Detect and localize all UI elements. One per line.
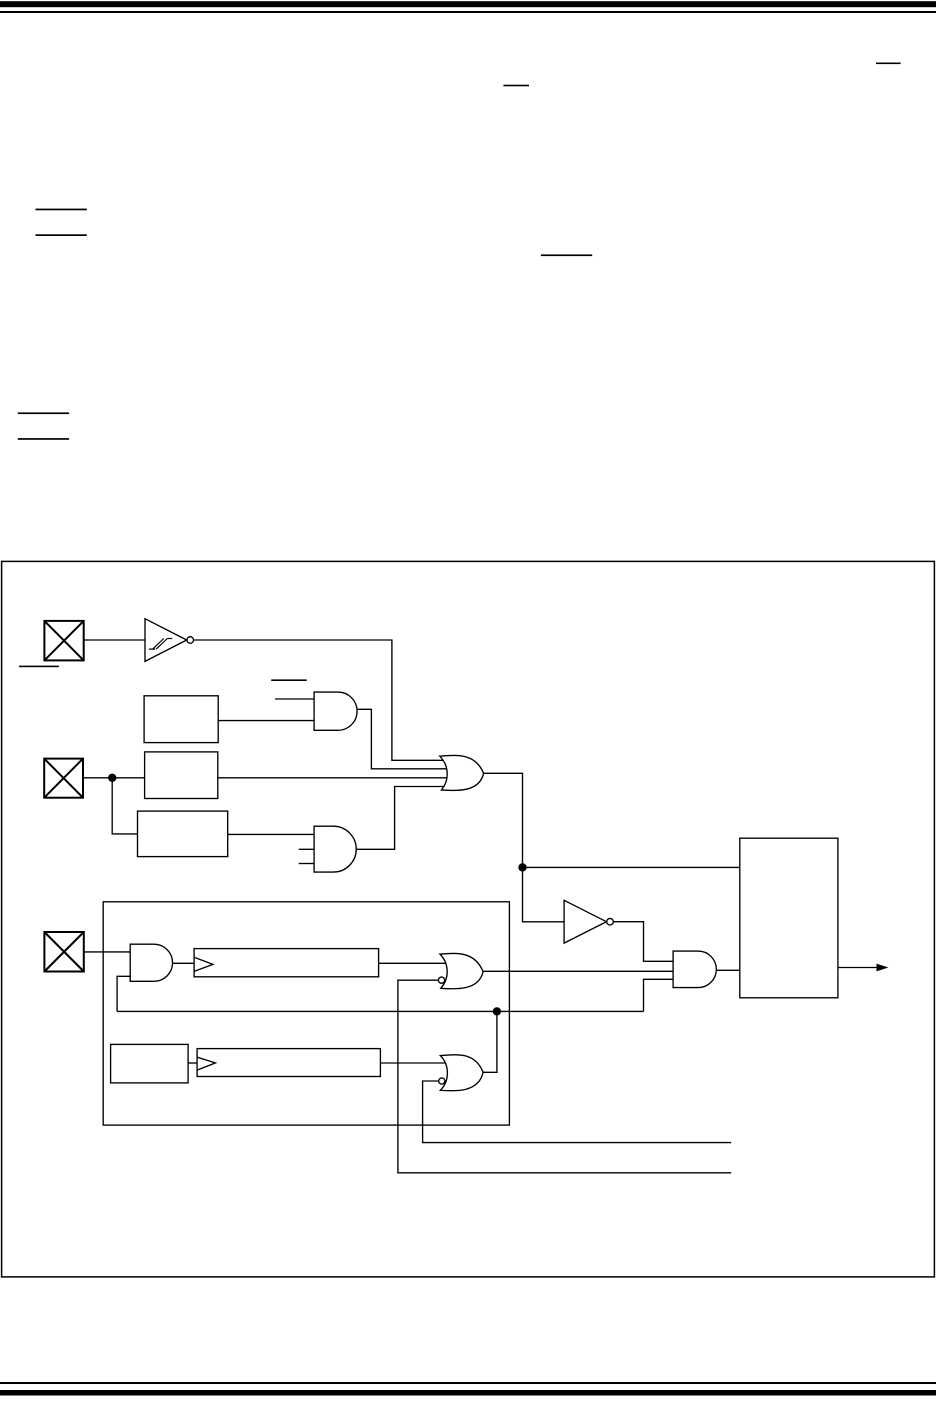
overbar over signal name (left list line 4): [18, 438, 69, 440]
pad1 (crossed bonding pad): [44, 621, 83, 661]
wire pad2 to block B2: [83, 777, 145, 779]
pad3 (crossed bonding pad): [44, 932, 83, 972]
D2 clock chevron: [197, 1057, 215, 1070]
wire delay D1 output to OR G5 input 1: [379, 962, 447, 964]
OR gate G5 with inverted input: [440, 953, 483, 988]
OR gate G3 (4-input): [440, 755, 484, 790]
wire AND G4 output to delay D1: [173, 962, 195, 964]
AND gate G6: [673, 951, 716, 988]
overbar over signal name (paragraph 2): [541, 254, 592, 256]
wire delay block B5 to delay D2: [188, 1062, 197, 1064]
footer thin rule: [0, 1382, 936, 1384]
wire pad3 to AND G4: [84, 951, 130, 953]
wire block B2 output to OR G3 input 3: [218, 777, 447, 779]
inner block boundary box: [103, 902, 509, 1125]
AND gate G1: [314, 692, 357, 730]
wire U1 output net to OR G3 input 1: [194, 640, 447, 760]
delay line D1: [194, 949, 379, 977]
figure frame: [2, 561, 935, 1277]
D1 clock chevron: [194, 957, 213, 971]
junction dot node N1: [518, 863, 526, 871]
pad2 (crossed bonding pad): [44, 759, 83, 798]
output arrowhead: [877, 964, 889, 972]
wire pad1 to schmitt U1: [84, 639, 145, 641]
block B1: [144, 696, 218, 743]
wire block B1 output to AND G1: [218, 720, 314, 722]
overbar over signal name (left list line 2): [36, 234, 87, 236]
wire block B3 output to AND G2: [228, 833, 314, 835]
output arrow wire: [838, 967, 878, 969]
block B5: [111, 1044, 189, 1083]
junction dot node N2: [493, 1007, 501, 1015]
wire OR G5 output to AND G6 input 2: [483, 970, 673, 972]
wire OR G7 inverted input to bottom stub 1: [423, 1081, 731, 1143]
wire node N2 down to OR G7 output net: [483, 1011, 497, 1072]
junction dot pad2 node: [108, 774, 116, 782]
block B2: [145, 752, 218, 799]
inverter U2: [564, 900, 606, 943]
wire feedback to AND G4 input 2: [117, 976, 130, 1011]
wire AND G6 output to block B4: [716, 969, 740, 971]
overbar over signal name (paragraph 1): [503, 85, 529, 87]
wire OR G3 output to node N1 and block B4: [484, 773, 740, 867]
wire AND G2 output to OR G3 input 4: [356, 787, 447, 850]
wire OR G5 inverted input to bottom stub 2: [398, 980, 731, 1173]
AND gate G4: [130, 944, 172, 981]
wire node N1 down to inverter U2: [523, 867, 565, 921]
wire feedback node N2 net: [117, 1010, 643, 1012]
wire inverter U2 output to AND G6 input 1: [614, 922, 674, 962]
OR gate G7 with inverted input: [440, 1055, 483, 1091]
wire AND G1 output to OR G3 input 2: [357, 709, 447, 769]
wire delay D2 output to OR G7 input 1: [380, 1062, 447, 1064]
overbar over signal name (top right): [876, 63, 901, 65]
underbar under pad1 label: [19, 666, 59, 668]
G7 input bubble: [439, 1078, 445, 1084]
output block B4: [740, 838, 838, 998]
wire AND G2 input stub a: [299, 848, 314, 850]
wire AND G2 input stub b: [299, 863, 314, 865]
overbar over AND G1 input label: [271, 679, 307, 681]
wire feedback to AND G6 input 3: [644, 979, 674, 1011]
U1 output bubble: [187, 637, 194, 644]
wire junction pad2 node down to block B3: [112, 778, 137, 834]
G5 input bubble: [438, 977, 444, 983]
overbar over signal name (left list line 3): [18, 412, 69, 414]
wire AND G1 input stub: [275, 698, 314, 700]
U1 hysteresis symbol: [149, 639, 172, 650]
footer thick rule: [0, 1390, 936, 1396]
block B3: [138, 811, 228, 857]
schmitt trigger inverter U1: [145, 619, 187, 662]
header thick rule: [0, 1, 936, 7]
header thin rule: [0, 11, 936, 13]
delay line D2: [197, 1049, 380, 1077]
U2 output bubble: [607, 918, 614, 925]
overbar over signal name (left list line 1): [36, 209, 87, 211]
AND gate G2: [314, 826, 356, 872]
